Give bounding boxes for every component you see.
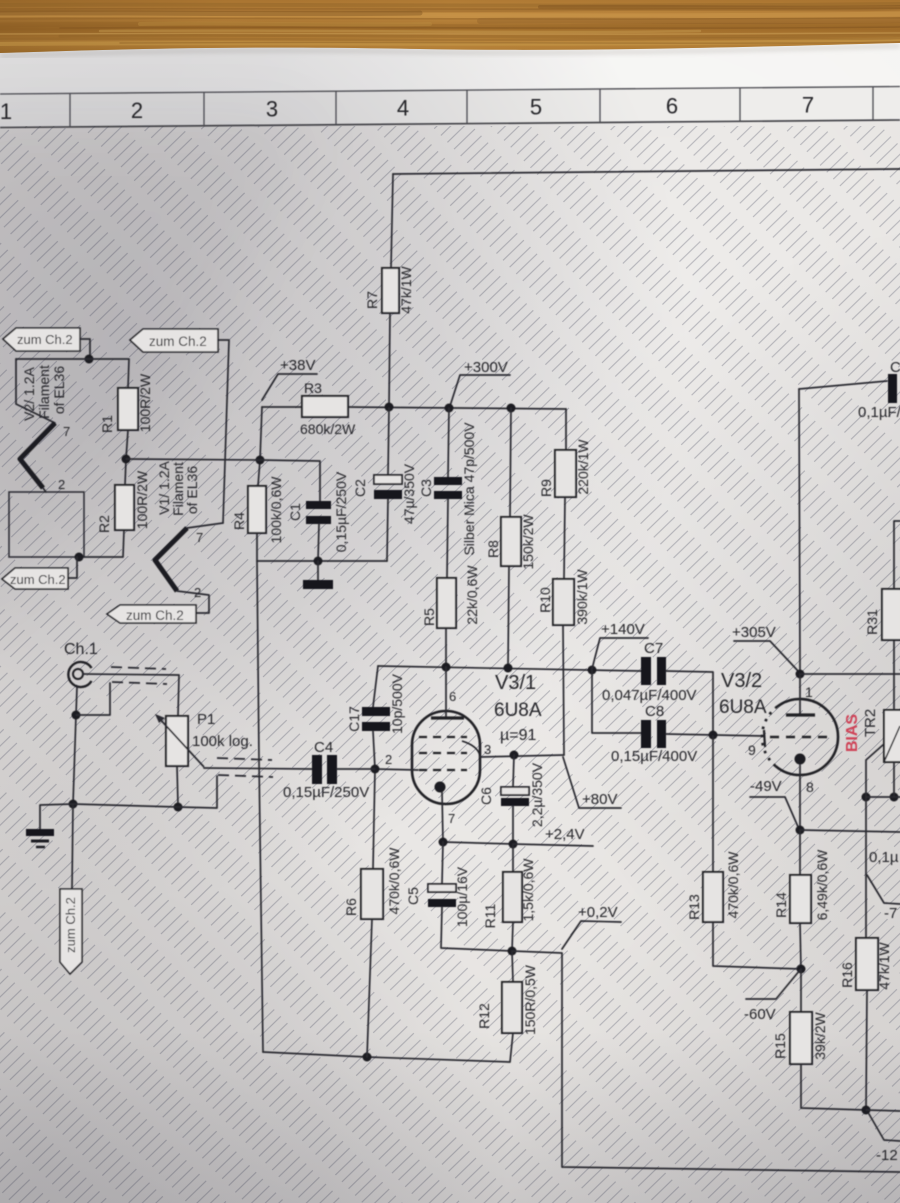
svg-text:TR2: TR2 — [862, 709, 879, 737]
svg-text:+0,2V: +0,2V — [578, 904, 618, 921]
heater V1 zigzag — [155, 528, 187, 591]
svg-text:V3/2: V3/2 — [721, 670, 762, 692]
svg-text:R4: R4 — [231, 512, 247, 530]
svg-text:100k log.: 100k log. — [192, 733, 253, 750]
wire V2 pin2 loop — [43, 488, 46, 492]
svg-text:2: 2 — [131, 98, 143, 123]
wire R14 bottom — [800, 923, 801, 969]
wire R15 bottom to -123V node — [801, 1064, 866, 1110]
svg-text:6U8A: 6U8A — [494, 700, 542, 721]
capacitor C5 electrolytic — [442, 842, 443, 884]
connector Ch.1 jack outer ring — [68, 662, 91, 687]
junction dot -123V node — [862, 1106, 871, 1115]
svg-text:of EL36: of EL36 — [184, 466, 200, 514]
wire R6 bottom — [367, 919, 372, 1057]
svg-text:7: 7 — [802, 92, 814, 117]
wire R11 bottom — [512, 922, 513, 951]
resistor R13 — [712, 736, 714, 872]
svg-text:C8: C8 — [645, 703, 664, 720]
svg-text:100R/2W: 100R/2W — [137, 373, 153, 432]
wire V1 pin2 to connector — [177, 591, 209, 613]
P1 wiper arrow — [158, 717, 204, 767]
junction dot C4 output — [371, 765, 380, 774]
resistor R8 — [510, 408, 511, 517]
contact shadow under wood edge — [0, 46, 900, 56]
wire bias vertical down to R16 — [865, 797, 867, 938]
svg-text:R9: R9 — [538, 479, 554, 497]
svg-text:R3: R3 — [304, 380, 322, 396]
grid lead curve to pin 3 — [462, 741, 480, 756]
junction dots cathode bus — [439, 838, 448, 847]
svg-text:Filament: Filament — [36, 365, 52, 419]
shield dashes output upper — [217, 758, 272, 760]
shield dashes jack lower — [112, 682, 167, 684]
capacitor C6 electrolytic — [513, 755, 514, 787]
wire grid pin 2 from C4 node — [375, 769, 418, 770]
wire pin 3 to R10 node — [480, 755, 564, 757]
capacitor 0,1µF plate at right edge — [888, 374, 897, 403]
transformer TR2 box — [884, 710, 900, 762]
svg-text:C: C — [890, 359, 900, 376]
resistor R5 — [437, 578, 456, 628]
svg-text:220k/1W: 220k/1W — [575, 439, 591, 495]
svg-text:R5: R5 — [421, 608, 437, 626]
shield dashes jack upper — [111, 667, 166, 669]
connector zum Ch.2 #2 — [130, 329, 218, 352]
wire ground bus under C1/C2 — [257, 560, 387, 562]
svg-text:C17: C17 — [346, 706, 362, 732]
svg-text:680k/2W: 680k/2W — [300, 421, 356, 437]
svg-text:2: 2 — [58, 477, 65, 492]
wire C4 node to R6 — [373, 769, 375, 869]
wire jack to P1 — [83, 674, 179, 716]
junction dot jack sleeve — [72, 711, 81, 720]
wire TR2 lower-left lead — [866, 744, 884, 797]
svg-text:R13: R13 — [686, 894, 702, 920]
svg-text:7: 7 — [63, 424, 70, 439]
junction dot R12 top — [508, 947, 517, 956]
resistor R14 — [799, 830, 801, 875]
wire top right to 0,1µF cap — [799, 381, 887, 389]
wire R10 down to grid node of V3/1 — [563, 625, 564, 755]
resistor R7 — [382, 268, 399, 313]
svg-text:BIAS: BIAS — [844, 714, 861, 753]
heater V2 zigzag — [20, 423, 55, 488]
node -75V callout — [867, 875, 900, 904]
grid reference band — [0, 87, 900, 128]
svg-text:390k/1W: 390k/1W — [574, 569, 590, 625]
connector Ch.1 jack inner pin — [73, 669, 83, 679]
svg-text:R6: R6 — [343, 898, 359, 916]
svg-text:8: 8 — [806, 779, 814, 795]
bright paper edge strip under wood — [0, 43, 900, 97]
svg-text:470k/0,6W: 470k/0,6W — [386, 847, 402, 915]
svg-text:2,2µ/350V: 2,2µ/350V — [529, 762, 545, 827]
junction dot R6 bottom — [363, 1053, 372, 1062]
svg-text:47k/1W: 47k/1W — [398, 265, 414, 313]
capacitor C4 — [312, 755, 322, 784]
svg-text:R31: R31 — [864, 609, 880, 635]
wire long return bus down left side — [257, 561, 263, 1052]
wire jack sleeve down — [73, 687, 77, 804]
tube V3/2 envelope solid arc — [776, 699, 838, 775]
junction dot P1 ground — [174, 803, 183, 812]
svg-text:+305V: +305V — [732, 624, 776, 641]
wire cathode node to right edge — [800, 830, 900, 832]
ground bar below C1 — [317, 561, 319, 580]
junction dot cathode node — [796, 826, 805, 835]
wire top rail from R7 to right edge — [393, 169, 900, 174]
wire R7 to +300V rail — [389, 313, 390, 407]
resistor R15 — [800, 969, 802, 1012]
svg-text:-12: -12 — [876, 1147, 898, 1164]
svg-text:R11: R11 — [482, 903, 498, 928]
wire R4 bottom to ground bus — [256, 533, 258, 561]
junction dot zum Ch.2 #4 tap — [75, 553, 84, 562]
svg-text:100R/2W: 100R/2W — [134, 470, 150, 529]
svg-text:9: 9 — [748, 742, 756, 758]
svg-text:0,15µF/400V: 0,15µF/400V — [611, 748, 697, 765]
resistor R9 — [565, 409, 567, 450]
cathode dot V3/1 — [435, 782, 446, 793]
wire anode rail y668 — [378, 666, 641, 671]
resistor R11 — [512, 844, 514, 872]
shield dashes output lower — [218, 775, 273, 777]
wire pin1 supply vertical — [799, 389, 800, 673]
pin 6 wire and anode plate — [445, 667, 447, 716]
resistor R31 — [882, 589, 900, 640]
svg-text:0,15µF/250V: 0,15µF/250V — [333, 471, 349, 552]
resistor R6 — [361, 869, 383, 919]
resistor R1 — [118, 388, 138, 430]
junction dot pin 1 — [796, 670, 805, 679]
grid dashed lines V3/1 — [419, 736, 467, 738]
wire R31 top feed — [894, 521, 900, 589]
wire cathode bus — [443, 842, 513, 844]
node +2,4V callout — [513, 844, 593, 846]
capacitor C3 — [448, 408, 449, 477]
wire P1 wiper output — [204, 768, 312, 769]
svg-text:-7: -7 — [884, 905, 897, 922]
svg-text:0,1µ: 0,1µ — [869, 849, 899, 866]
svg-text:µ=91: µ=91 — [500, 727, 536, 744]
wire heater top bus — [16, 359, 129, 388]
wire +300V rail — [262, 406, 302, 408]
svg-text:3: 3 — [484, 742, 491, 757]
pin 7 wire — [442, 792, 443, 842]
wire R5 to anode rail — [445, 628, 447, 667]
svg-text:P1: P1 — [197, 711, 215, 728]
svg-text:150R/0,5W: 150R/0,5W — [522, 964, 538, 1035]
capacitor C1 — [306, 501, 331, 509]
svg-text:+140V: +140V — [601, 621, 645, 638]
wire -123V node to right edge — [866, 1110, 900, 1111]
resistor R12 — [512, 951, 513, 982]
svg-text:+300V: +300V — [464, 359, 508, 376]
svg-text:-49V: -49V — [750, 778, 782, 795]
svg-text:C3: C3 — [418, 479, 434, 497]
junction dot C1 ground — [314, 557, 323, 566]
svg-text:Ch.1: Ch.1 — [64, 641, 98, 658]
junction dot heater bus — [85, 355, 94, 364]
resistor R4 — [248, 486, 266, 533]
wire zum Ch.2 #1 to heater bus — [80, 339, 90, 358]
wire R12 bottom to left bus — [263, 1033, 513, 1062]
resistor R2 — [115, 485, 134, 530]
svg-text:C7: C7 — [644, 640, 663, 657]
svg-text:zum Ch.2: zum Ch.2 — [10, 572, 66, 587]
svg-text:R1: R1 — [99, 415, 115, 433]
tube V3/2 envelope dotted arc — [762, 708, 776, 766]
wire C7 right to corner down — [666, 671, 713, 735]
svg-text:R12: R12 — [476, 1003, 492, 1029]
svg-text:zum Ch.2: zum Ch.2 — [63, 897, 78, 953]
svg-text:1: 1 — [805, 684, 813, 700]
svg-text:150k/2W: 150k/2W — [520, 514, 536, 570]
svg-text:R14: R14 — [773, 892, 789, 918]
svg-text:zum Ch.2: zum Ch.2 — [149, 334, 207, 349]
svg-text:47µ/350V: 47µ/350V — [401, 463, 417, 524]
svg-text:C6: C6 — [478, 787, 494, 805]
wire R13 bottom to R14/R15 node — [713, 922, 801, 969]
svg-text:+38V: +38V — [280, 357, 315, 374]
svg-text:0,15µF/250V: 0,15µF/250V — [283, 784, 369, 801]
svg-text:of EL36: of EL36 — [51, 366, 67, 414]
capacitor C7 — [641, 657, 651, 685]
wire R1 bottom / heater mid bus — [126, 430, 128, 459]
capacitor C8 — [641, 720, 651, 748]
svg-text:4: 4 — [397, 96, 409, 121]
wire TR2 right lead — [893, 762, 895, 797]
wire from pin1 node to right — [800, 673, 900, 675]
grid dashed line V3/2 — [770, 736, 833, 738]
svg-text:C4: C4 — [314, 739, 333, 756]
svg-text:47k/1W: 47k/1W — [876, 941, 892, 989]
junction dots anode rail — [442, 663, 451, 672]
svg-text:39k/2W: 39k/2W — [812, 1011, 828, 1059]
node -12x callout — [869, 1114, 900, 1141]
svg-text:5: 5 — [530, 95, 542, 120]
node junction R4 top — [256, 456, 265, 465]
pin 8 wire — [799, 765, 801, 830]
wire P1 bottom — [177, 766, 178, 806]
svg-text:1: 1 — [0, 99, 12, 124]
svg-text:R15: R15 — [772, 1033, 788, 1059]
svg-text:6U8A: 6U8A — [719, 697, 767, 718]
connector zum Ch.2 #4 — [68, 557, 77, 578]
resistor R16 — [856, 938, 878, 990]
svg-text:100k/0,6W: 100k/0,6W — [268, 476, 284, 544]
svg-text:22k/0,6W: 22k/0,6W — [464, 565, 480, 625]
connector zum Ch.2 #3 — [107, 605, 196, 623]
wire left end of rail down to R4 — [258, 407, 262, 486]
svg-text:R16: R16 — [839, 962, 855, 988]
svg-text:C5: C5 — [405, 887, 421, 905]
wooden table at top — [0, 0, 900, 53]
junction dots bias feed — [862, 793, 871, 802]
junction dot -60V node — [797, 965, 806, 974]
junction dots on +300V rail — [385, 403, 394, 412]
svg-text:C1: C1 — [287, 503, 303, 521]
pin 9 tick — [764, 730, 765, 747]
svg-text:zum Ch.2: zum Ch.2 — [126, 608, 184, 623]
capacitor C2 electrolytic — [388, 408, 389, 475]
svg-text:0,1µF/: 0,1µF/ — [858, 404, 900, 421]
wire V2 pin7 lead — [16, 359, 55, 423]
svg-text:6: 6 — [666, 93, 678, 118]
wire to zum Ch.2 #5 — [72, 804, 73, 889]
wire R9 to R10 — [564, 497, 565, 579]
cathode dot V3/2 — [795, 754, 806, 765]
svg-text:-60V: -60V — [744, 1006, 776, 1023]
svg-text:6: 6 — [449, 689, 456, 704]
wire shield tie jack side — [76, 683, 110, 715]
svg-text:R7: R7 — [364, 291, 380, 309]
wire loop bottom extension to R2 — [84, 530, 124, 557]
wire bottom bus corner — [512, 951, 900, 1172]
svg-text:R2: R2 — [96, 515, 112, 533]
wire C17 branch from anode rail — [373, 666, 378, 707]
wire bias node to right edge — [866, 796, 900, 798]
wire V1 pin7 link — [187, 523, 223, 528]
resistor R3 — [302, 396, 348, 417]
svg-text:V3/1: V3/1 — [495, 672, 536, 694]
svg-text:3: 3 — [266, 97, 278, 122]
wire R16 bottom — [866, 990, 867, 1110]
svg-text:R10: R10 — [537, 587, 553, 613]
svg-text:+2,4V: +2,4V — [545, 826, 585, 843]
wire C1 branch — [260, 460, 320, 501]
connector zum Ch.2 #1 — [3, 328, 80, 351]
svg-text:+80V: +80V — [582, 791, 617, 808]
junction dot C7/C8 right — [709, 731, 718, 740]
wire R7 branch vertical — [391, 174, 393, 268]
svg-text:C2: C2 — [352, 479, 368, 497]
junction dot C6 top — [510, 751, 519, 760]
connector zum Ch.2 #5 vertical — [60, 889, 82, 974]
svg-text:zum Ch.2: zum Ch.2 — [17, 332, 73, 347]
resistor R10 — [553, 579, 574, 625]
svg-text:7: 7 — [448, 811, 455, 826]
svg-text:470k/0,6W: 470k/0,6W — [725, 851, 741, 919]
node +80V callout — [563, 757, 621, 808]
tube V3/1 envelope — [412, 711, 480, 804]
svg-text:Silber Mica 47p/500V: Silber Mica 47p/500V — [461, 422, 477, 556]
wire C8 branch — [592, 670, 641, 733]
svg-text:R8: R8 — [485, 540, 501, 558]
wire R2 top — [125, 459, 126, 485]
capacitor C17 — [362, 707, 390, 716]
svg-text:1,5k/0,6W: 1,5k/0,6W — [520, 858, 536, 922]
svg-text:7: 7 — [196, 530, 203, 545]
wire R31 to TR2 — [893, 640, 895, 710]
ground symbol — [40, 804, 73, 829]
grid number band background — [0, 87, 900, 128]
wire zum Ch.2 #2 down to V1 heater — [218, 340, 229, 523]
wire C8 to pin 9 of V3/2 — [666, 734, 764, 736]
svg-text:2: 2 — [385, 752, 392, 767]
wire ground bus — [73, 776, 217, 808]
potentiometer P1 — [166, 716, 188, 766]
junction dot ground bus left — [69, 800, 78, 809]
wire R8 to anode rail — [508, 566, 509, 668]
pin 1 stem and anode bar — [799, 674, 801, 714]
svg-text:0,047µF/400V: 0,047µF/400V — [602, 687, 697, 704]
svg-text:10p/500V: 10p/500V — [389, 673, 405, 734]
svg-text:100µ/16V: 100µ/16V — [454, 866, 470, 927]
svg-text:6,49k/0,6W: 6,49k/0,6W — [814, 849, 830, 921]
